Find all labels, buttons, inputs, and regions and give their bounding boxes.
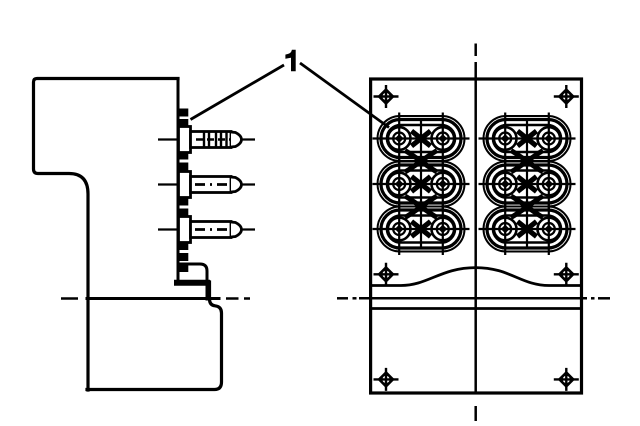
grommet pair r3c1	[373, 203, 470, 255]
grommet pair r1c2	[479, 113, 576, 165]
wire link between rows at x=527.0	[511, 196, 543, 218]
wire link between rows at x=421.0	[405, 196, 437, 218]
horizontal centerline (left view)	[61, 297, 250, 300]
rivet target mark at (386,379.4)	[374, 368, 399, 391]
grommet pair r1c1	[373, 113, 470, 165]
leader line to left view	[191, 65, 285, 120]
rivet target mark at (566.3,96.5)	[554, 85, 579, 108]
vertical centerline	[474, 44, 477, 422]
rivet target mark at (386,274.3)	[374, 263, 399, 286]
grommet pair r2c1	[373, 158, 470, 210]
horizontal centerline (right view)	[337, 297, 610, 300]
terminal stud at y=229.5	[158, 217, 255, 243]
serration teeth on plate face	[180, 109, 188, 271]
foot step	[178, 264, 207, 299]
terminal stud at y=184.5	[158, 172, 255, 198]
rivet target mark at (566.3,274.3)	[554, 263, 579, 286]
rivet target mark at (566.3,379.4)	[554, 368, 579, 391]
wire link between rows at x=527.0	[511, 151, 543, 173]
rivet target mark at (386,96.5)	[374, 85, 399, 108]
grommet pair r3c2	[479, 203, 576, 255]
lower block outline	[87, 282, 222, 390]
gasket seam line	[371, 307, 582, 310]
leader line to right view grommet	[300, 63, 389, 128]
grommet pair r2c2	[479, 158, 576, 210]
left view: side elevation of terminal block body	[34, 79, 222, 391]
mounting plate face	[177, 79, 180, 284]
lower block top edge	[87, 297, 219, 300]
hump curve on gasket	[372, 268, 581, 286]
wire link between rows at x=421.0	[405, 151, 437, 173]
item number 1	[286, 50, 296, 71]
plate outline	[371, 79, 582, 393]
body outline (upper profile)	[34, 79, 179, 391]
terminal stud at y=139.5	[158, 127, 255, 153]
